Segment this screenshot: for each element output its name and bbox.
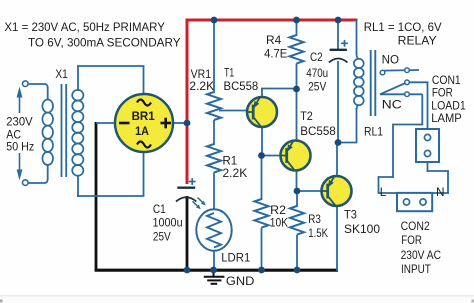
svg-text:C2: C2: [310, 50, 323, 64]
svg-text:1A: 1A: [135, 124, 149, 138]
svg-text:NO: NO: [382, 53, 399, 67]
svg-text:X1 = 230V AC, 50Hz PRIMARY: X1 = 230V AC, 50Hz PRIMARY: [4, 20, 165, 34]
svg-text:25V: 25V: [308, 80, 326, 94]
svg-text:BR1: BR1: [132, 109, 155, 123]
svg-text:TO 6V, 300mA SECONDARY: TO 6V, 300mA SECONDARY: [28, 36, 181, 50]
svg-text:1000u: 1000u: [153, 216, 183, 230]
svg-text:2.2K: 2.2K: [223, 166, 248, 180]
svg-text:BC558: BC558: [300, 124, 336, 138]
svg-text:L: L: [380, 185, 387, 199]
svg-text:BC558: BC558: [224, 79, 259, 93]
svg-text:T1: T1: [224, 65, 234, 79]
svg-text:FOR: FOR: [401, 233, 422, 247]
svg-text:R3: R3: [308, 212, 321, 226]
svg-text:R4: R4: [266, 33, 282, 47]
svg-text:GND: GND: [226, 274, 255, 288]
svg-text:10K: 10K: [270, 216, 288, 230]
svg-text:SK100: SK100: [344, 222, 380, 236]
svg-text:4.7E: 4.7E: [264, 46, 287, 60]
svg-text:X1: X1: [55, 67, 68, 81]
svg-text:CON2: CON2: [401, 219, 430, 233]
svg-text:50 Hz: 50 Hz: [6, 139, 34, 153]
svg-text:230V AC: 230V AC: [401, 248, 442, 262]
svg-text:RL1: RL1: [364, 125, 383, 139]
svg-text:LAMP: LAMP: [431, 111, 461, 125]
svg-text:FOR: FOR: [432, 86, 453, 100]
svg-text:2.2K: 2.2K: [189, 79, 214, 93]
svg-text:T3: T3: [344, 208, 357, 222]
svg-text:C1: C1: [153, 202, 166, 216]
svg-text:INPUT: INPUT: [401, 262, 431, 276]
svg-text:1.5K: 1.5K: [308, 226, 328, 240]
svg-text:470u: 470u: [306, 66, 328, 80]
svg-text:T2: T2: [300, 109, 313, 123]
svg-text:25V: 25V: [153, 230, 171, 244]
svg-text:RL1 = 1CO, 6V: RL1 = 1CO, 6V: [364, 20, 442, 34]
svg-text:LDR1: LDR1: [221, 251, 250, 265]
svg-text:RELAY: RELAY: [398, 34, 437, 48]
svg-text:N: N: [436, 185, 445, 199]
svg-text:230V: 230V: [6, 115, 32, 129]
svg-text:NC: NC: [382, 98, 402, 112]
